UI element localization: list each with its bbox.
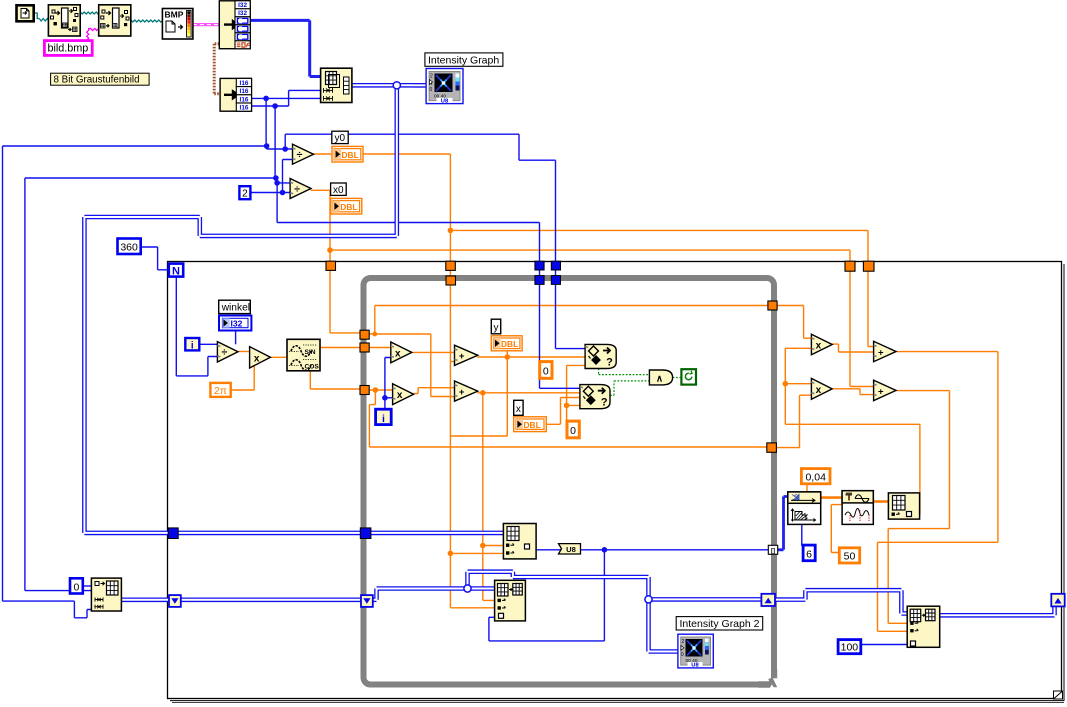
tunnel U8 array out while-loop right [768,545,777,554]
svg-text:U8: U8 [441,98,449,104]
wire: cluster image data thick to reshape [250,20,321,76]
wire: peak detector to build array thick [873,500,888,503]
node B flatten pixmap [99,5,131,36]
wire: y0 value from divide1 to DBL y0 and onward [313,153,450,155]
constant 2 [239,186,250,199]
tunnel orange while-loop left 2 [360,343,369,352]
svg-text:?: ? [601,397,608,409]
svg-text:U8: U8 [566,545,576,554]
unbundle by name node image info [219,1,250,49]
constant 50 [839,548,859,563]
svg-text:0,04: 0,04 [805,471,826,483]
wire: constant 2 to divide2 [250,192,290,194]
svg-text:U8: U8 [691,663,699,669]
constant 0,04 [801,469,830,484]
wire: intensity graph input stub [414,83,426,88]
while-loop resize corner glyph [758,669,780,691]
junction dot blue cell3 [263,96,269,102]
tunnel orange while-loop right x out [767,443,777,452]
svg-text:y: y [494,323,499,334]
junction circle 2D array feedback branch [645,596,652,603]
wire: in-range1 boolean dotted to AND [599,369,650,375]
svg-text:0: 0 [543,365,549,377]
while-loop gray frame [364,278,775,685]
junction dot blue U8 out [602,547,608,553]
wire: 100 constant to insert node [861,644,907,646]
build array node top right [888,493,919,519]
wire: x0 branch across top to right add2 [330,250,874,386]
junction dot orange zero limit [564,403,570,409]
reshape array node [321,68,352,102]
svg-text:÷: ÷ [297,149,303,161]
wire: mult-bottom out to add2 [413,388,454,394]
tunnel orange while-loop left 3 [360,386,369,395]
wire: U8 1D array thick to histogram [777,497,787,550]
wire: 2D array branch down around to loops [84,87,503,533]
constant 0 bottom left [70,578,83,593]
bild.bmp string constant [44,41,92,56]
shift register while-loop right [761,594,775,606]
wire: BMP cluster pink dashed to unbundle [193,23,219,26]
multiply node right 2 [811,378,832,399]
wire: x staircase into loop to in-range2 [277,183,580,388]
wire: while shift out to bottom-right insert node [776,590,908,613]
divide node mid [217,342,238,362]
insert into array node bottom right [907,606,940,647]
wire: AND out dotted to loop condition [673,377,682,379]
junction dot blue cell4 [272,103,278,109]
wire: winkel indicator tap [235,330,237,344]
wire: 50 constant up to peak detector [831,505,842,553]
i terminal loop [376,409,392,425]
junction dot orange row index [448,551,454,557]
svg-text:∧: ∧ [656,373,663,384]
shift register for-loop left [169,595,181,607]
svg-text:8 Bit Graustufenbild: 8 Bit Graustufenbild [54,75,140,86]
BMP read node [162,9,193,40]
constant 6 [803,545,815,561]
svg-text:DBL: DBL [501,339,518,349]
constant 360 [118,239,141,255]
for-loop resize corner glyph [1054,691,1063,699]
wire: right mult2 out to right add2 [833,389,873,395]
junction dot blue height split [273,175,279,181]
constant 0 upper [540,362,552,379]
tunnel orange while-loop right y out [768,301,777,310]
i terminal outer [185,338,199,351]
add node right 1 [874,341,896,361]
wire: image width long run to init array [3,146,267,618]
svg-text:x: x [816,385,822,396]
wire: add1 out to in-range1, DBL y tap, down-left trunk [450,351,585,436]
wire: zero limits to in-range nodes [567,365,586,421]
multiply node loop bottom [393,384,414,405]
wire: x0 to right mult1 via right tunnel [777,306,811,339]
tunnel orange for-loop top x0 [326,261,336,270]
svg-text:2: 2 [242,189,248,200]
svg-text:I32: I32 [231,319,243,329]
wire: right mult1 out to right add1 [831,344,873,352]
sincos node [287,339,320,371]
wire: divide2 input joint [276,178,291,183]
wire: unbundle2 cell3 to reshape dim2 [252,97,321,99]
junction dot blue x stair [274,180,280,186]
wire: y0 trunk to replace node row input [450,552,503,554]
wire: DBL x out up to in-range2 [546,398,580,425]
wire: cos output to tunnel3 and mult-bottom, loop bottom run [310,371,766,447]
histogram node [788,492,821,525]
junction dot blue width split [264,143,270,149]
svg-text:COS: COS [305,364,320,371]
wire: 2pi constant to mult-mid [231,364,254,390]
junction dot orange x0 top [327,247,333,253]
wire: color table brown dotted to unbundle2 [214,44,220,94]
svg-text:Intensity Graph 2: Intensity Graph 2 [680,618,760,630]
junction dot orange x0 branch [372,332,377,337]
tunnel navy while-loop left 2D array [360,528,371,539]
I32 indicator winkel [219,316,251,331]
svg-text:y0: y0 [335,133,346,144]
svg-text:x: x [254,353,260,364]
intensity graph 2 terminal icon [678,634,713,668]
tunnel orange while-loop top y0 [446,276,456,285]
wire: histogram intervals constant 6 [801,524,803,546]
svg-text:2: 2 [682,639,685,645]
svg-text:+: + [878,347,884,358]
wire: cos value exits right tunnel to right mult2 [777,395,812,447]
wire: y0 trunk stub to add1 lower input [450,361,454,363]
wire: right add1 out to bottom insert node [878,352,998,632]
wire: mult-mid out to sincos [270,356,287,358]
junction dot orange right shared vertical [783,381,789,387]
tunnel orange while-loop left 1 [360,330,369,339]
wire: i terminal to divide-mid [199,343,217,345]
wire: shared vertical feeding right mults and array node [785,348,920,514]
svg-text:x: x [516,404,521,415]
wire: loop i terminal to both mult nodes [385,358,393,410]
multiply node right 1 [811,334,832,355]
wire: zero constant to init array [83,585,91,587]
svg-text:0: 0 [430,87,433,93]
wire: refnum path wavy to node A [34,13,50,21]
wire: N terminal staircase to divide-mid [176,277,217,376]
unbundle node image lines [220,78,251,111]
svg-text:I32: I32 [238,10,247,17]
tunnel orange for-loop top right a [845,261,855,271]
svg-text:I16: I16 [240,80,249,87]
wire: U8 array out of loop [489,550,770,641]
replace array subset node 2 [495,580,526,621]
DBL indicator x0 [331,198,362,214]
svg-text:N: N [172,265,180,277]
svg-text:+: + [878,386,884,397]
wire: x0 from divide2 down left border [311,190,361,333]
junction dot orange y0 top [448,228,454,234]
label winkel [219,300,251,313]
comment label 8 Bit Graustufenbild [51,73,150,85]
svg-text:DBL: DBL [342,150,359,160]
junction dot orange col index [480,543,486,549]
svg-text:I16: I16 [240,105,249,112]
tunnel blue for-loop top a [535,261,544,270]
wire: 2D array feedback to right shift register and graph2 [468,572,762,652]
wire: histogram to peak detector thick [821,496,842,499]
add node right 2 [874,380,896,400]
svg-text:DBL: DBL [340,202,357,212]
svg-text:I32: I32 [238,2,247,9]
svg-text:[]: [] [771,548,775,554]
constant 100 [838,640,861,654]
peak detector node [842,491,873,525]
svg-text:x: x [816,340,822,351]
wire: divide1 inputs joint [267,146,293,193]
junction dot blue loop i [382,395,388,401]
AND gate [649,370,672,385]
DBL indicator y [491,336,522,351]
svg-text:6: 6 [806,548,812,560]
svg-text:+: + [459,351,465,362]
constant 2pi [210,383,230,397]
shift register while-loop left [361,595,373,607]
label y [491,319,500,334]
wire: y0 trunk bottom to replace2 node [450,607,494,609]
tunnel blue while-loop top a [535,276,544,285]
for-loop frame [168,262,1065,703]
in-range node 2 [580,385,610,409]
wire: insert node out to for-loop right shift register [940,606,1055,615]
junction circle 2D array graph branch [393,82,400,89]
intensity graph terminal icon [426,69,463,105]
svg-text:DBL: DBL [524,420,541,430]
wire: y0 branch across top to right add1 [450,230,873,346]
svg-text:?: ? [606,357,613,369]
wire: 0,04 constant into histogram node [806,484,808,493]
loop condition terminal [681,369,696,384]
in-range node 1 [585,344,616,368]
label x [514,400,523,415]
junction dot blue y stair [282,146,288,152]
wire: add2 out to in-range2 and down trunk [477,393,580,601]
shift register for-loop right [1051,594,1064,607]
wire: node A to node B wavy [80,12,99,14]
svg-text:SIN: SIN [305,349,316,356]
add node loop top [455,345,478,365]
wire: init array 2D out to shift registers [121,589,494,600]
wire: x0 inside loop from tunnel1 [369,306,768,397]
replace array subset node [503,524,536,559]
junction dot blue half divisor [280,190,286,196]
wire: unbundle2 cell4 to reshape dim1 [252,90,321,106]
U8 wire type tag [559,544,581,554]
wire: node B to BMP wavy [131,20,163,22]
svg-text:x0: x0 [333,185,344,196]
svg-text:x: x [397,390,403,401]
svg-text:0: 0 [681,652,684,658]
multiply node loop top [391,342,412,363]
label Intensity Graph 2 [676,617,763,630]
svg-text:0: 0 [570,425,576,437]
svg-text:+: + [459,387,465,398]
label Intensity Graph [425,53,503,66]
wire: sin output to tunnel2 and mult-top [320,347,391,349]
DBL indicator y0 [332,146,363,162]
svg-text:i: i [382,413,385,425]
wire: 360 constant to N terminal [141,247,169,270]
svg-text:Intensity Graph: Intensity Graph [428,54,499,66]
svg-text:360: 360 [120,241,138,253]
wire: y0 vertical trunk down into loops [449,154,451,608]
initialize array node [91,578,121,611]
svg-text:BMP: BMP [165,10,184,20]
tunnel orange for-loop top y0 [446,261,456,270]
wire: bild.bmp string wavy to node B [87,29,101,41]
junction dot orange cos tunnel3 [373,387,379,393]
label x0 [331,183,347,196]
add node loop bottom [455,381,478,401]
svg-text:x: x [395,348,401,359]
tunnel navy for-loop left 2D array [168,528,178,539]
svg-text:50: 50 [844,551,856,563]
svg-text:÷: ÷ [222,347,228,359]
wire: mult-top out to add1 [413,351,455,353]
svg-text:2: 2 [430,74,433,80]
svg-text:0: 0 [73,581,79,593]
wire: in-range2 boolean dotted to AND [610,381,649,396]
svg-text:÷: ÷ [294,183,300,195]
constant 0 lower [567,421,579,438]
wire: right add2 out to bottom insert node [888,391,949,624]
junction circle 2D array shift branch [464,585,471,592]
wire: 2D array reshape out to intensity graph [352,83,426,88]
svg-text:I16: I16 [240,88,249,95]
junction dot orange add1 out [505,354,511,360]
multiply node mid [250,347,271,368]
svg-text:bild.bmp: bild.bmp [48,43,89,55]
wire: cell3 branch down to divide1 [265,98,267,146]
tunnel blue while-loop top b [551,276,560,285]
svg-text:i: i [191,340,194,351]
vi reference icon [17,5,34,21]
wire: cell4 branch down to divide2 [274,106,276,178]
tunnel blue for-loop top b [551,261,560,270]
svg-text:100: 100 [841,642,859,654]
node A unflatten pixmap [48,5,80,36]
wire: image height long run to init array [25,178,276,591]
tunnel orange for-loop top right b [863,261,874,271]
divide node top x [290,179,311,199]
label y0 [332,131,348,144]
svg-text:I16: I16 [240,96,249,103]
svg-text:winkel: winkel [221,303,250,314]
junction dot orange add2 out [480,390,486,396]
wire: y staircase into loop to in-range1 [285,134,585,348]
wire: divide-mid out to mult-mid [238,351,250,353]
svg-text:2π: 2π [214,385,227,397]
divide node top y [293,144,314,164]
DBL indicator x [514,417,547,432]
N count terminal [169,264,183,278]
